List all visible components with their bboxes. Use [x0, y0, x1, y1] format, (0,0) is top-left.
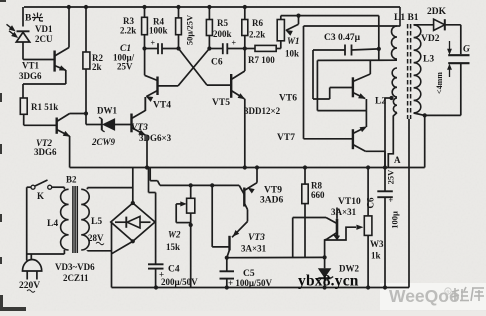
svg-text:+: + — [232, 39, 237, 48]
svg-text:VT7: VT7 — [277, 133, 295, 143]
svg-text:100k: 100k — [149, 26, 168, 36]
svg-text:2CZ11: 2CZ11 — [63, 273, 89, 283]
svg-text:G: G — [463, 45, 470, 55]
svg-text:R3: R3 — [123, 16, 134, 26]
svg-text:VT3: VT3 — [248, 233, 265, 243]
svg-text:2CW9: 2CW9 — [91, 137, 116, 147]
svg-text:<4mm: <4mm — [435, 72, 444, 94]
svg-text:W3: W3 — [370, 239, 384, 249]
svg-text:L4: L4 — [47, 219, 58, 229]
svg-text:R1 51k: R1 51k — [31, 102, 58, 112]
svg-text:3DG6×3: 3DG6×3 — [139, 133, 172, 143]
svg-text:+ 100μ/50V: + 100μ/50V — [228, 278, 272, 288]
svg-text:200μ/50V: 200μ/50V — [161, 277, 198, 287]
svg-text:R7 100: R7 100 — [248, 55, 275, 65]
svg-text:25V: 25V — [117, 62, 133, 72]
svg-text:2k: 2k — [92, 62, 102, 72]
svg-text:L5: L5 — [91, 217, 102, 227]
svg-text:A: A — [394, 155, 401, 165]
svg-text:3DG6: 3DG6 — [34, 147, 57, 157]
svg-text:R6: R6 — [252, 18, 263, 28]
svg-text:ybx8.ycn: ybx8.ycn — [298, 273, 359, 290]
svg-text:B: B — [25, 14, 32, 24]
svg-text:3A×31: 3A×31 — [241, 244, 267, 254]
svg-text:VT6: VT6 — [279, 94, 297, 104]
svg-text:VT5: VT5 — [212, 98, 230, 108]
svg-text:3A×31: 3A×31 — [331, 207, 357, 217]
svg-text:W2: W2 — [168, 230, 181, 240]
svg-text:K: K — [37, 191, 44, 201]
svg-text:15k: 15k — [166, 242, 180, 252]
svg-text:VT4: VT4 — [153, 101, 171, 111]
svg-text:L1 B1: L1 B1 — [394, 13, 419, 23]
svg-text:660: 660 — [311, 190, 325, 200]
svg-text:VD3~VD6: VD3~VD6 — [55, 262, 95, 272]
svg-text:VD1: VD1 — [35, 24, 53, 34]
svg-text:+: + — [151, 39, 156, 48]
svg-text:C6: C6 — [366, 197, 376, 208]
svg-text:50μ/25V: 50μ/25V — [185, 14, 195, 45]
svg-text:VT3: VT3 — [131, 123, 148, 133]
svg-text:R5: R5 — [217, 18, 228, 28]
svg-text:2.2k: 2.2k — [120, 26, 136, 36]
svg-text:100μ: 100μ — [390, 211, 400, 229]
svg-text:W1: W1 — [287, 36, 300, 46]
svg-text:28V: 28V — [88, 233, 104, 243]
svg-text:C6: C6 — [211, 58, 223, 68]
svg-text:C4: C4 — [168, 265, 180, 275]
svg-text:3DG6: 3DG6 — [19, 71, 42, 81]
svg-text:3AD6: 3AD6 — [260, 196, 283, 206]
svg-text:R8: R8 — [311, 181, 322, 191]
svg-text:VT9: VT9 — [264, 186, 282, 196]
svg-text:200k: 200k — [213, 29, 232, 39]
svg-text:B2: B2 — [66, 175, 77, 185]
svg-text:C3 0.47μ: C3 0.47μ — [324, 33, 361, 43]
svg-text:VT1: VT1 — [22, 61, 40, 71]
svg-text:2CU: 2CU — [35, 34, 53, 44]
svg-text:VT10: VT10 — [338, 197, 361, 207]
svg-text:2.2k: 2.2k — [249, 30, 265, 40]
svg-text:VD2: VD2 — [421, 34, 440, 44]
svg-text:2DK: 2DK — [427, 7, 447, 17]
svg-text:25V: 25V — [386, 169, 396, 185]
svg-text:10k: 10k — [285, 49, 299, 59]
svg-text:DW1: DW1 — [97, 106, 117, 116]
svg-text:L3: L3 — [423, 55, 434, 65]
svg-text:L2: L2 — [375, 97, 386, 107]
svg-text:1k: 1k — [371, 251, 381, 261]
svg-text:+: + — [389, 196, 394, 205]
svg-text:3DD12×2: 3DD12×2 — [244, 106, 281, 116]
